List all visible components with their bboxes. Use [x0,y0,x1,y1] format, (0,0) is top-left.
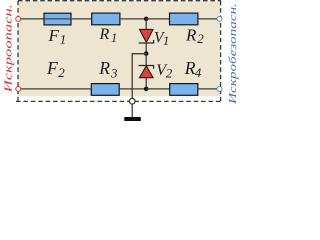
resistor R4 [170,84,198,96]
resistor R2 [170,13,198,25]
wire: node A down to zener V1 [145,19,147,30]
resistor R3 [91,84,119,96]
wire: R4 to right-bottom terminal [198,88,217,90]
wire: V1 cathode to node B [145,43,147,54]
wire: R3 to node C [119,88,146,90]
label F1 [48,26,67,46]
wire: left-bottom terminal to R3 (fuse F2 position) [21,88,92,90]
wire: ground terminal to earth symbol [131,104,133,117]
node C (bottom junction dot) [144,87,149,92]
svg-text:2: 2 [197,31,204,46]
label R1 [99,26,118,45]
wire: left-top terminal to fuse F1 [21,18,45,20]
zener diode V2 [139,66,154,78]
barrier enclosure fill [19,1,221,96]
label R3 [98,58,118,81]
ground (earth bar) [124,117,141,121]
fuse F1 body [44,13,71,25]
svg-text:F: F [48,26,60,45]
svg-text:1: 1 [60,32,67,47]
svg-text:1: 1 [111,31,117,45]
terminal: right bottom (intrinsically safe output) [217,86,222,91]
wire: F1 to R1 [71,18,92,20]
zener diode V1 [139,29,154,43]
ground pass-through terminal on border [129,98,135,104]
wire: node C to R4 [146,88,170,90]
svg-text:F: F [46,58,58,78]
wire: V2 anode to node C [145,78,147,89]
svg-text:1: 1 [163,34,169,48]
node B (midpoint junction dot) [144,51,149,56]
label V1 [154,29,169,48]
wire: node A to R2 [146,18,169,20]
svg-text:4: 4 [195,65,202,80]
svg-text:R: R [99,26,110,43]
svg-text:R: R [185,25,197,44]
wire: R2 to right-top terminal [198,18,217,20]
svg-text:2: 2 [166,65,173,80]
node A (top junction dot) [144,17,149,22]
label R2 [185,25,204,46]
terminal: left top (spark-hazard input) [16,16,21,21]
svg-text:Искроопасн.: Искроопасн. [4,4,15,94]
svg-text:Искробезопасн.: Искробезопасн. [228,3,239,105]
terminal: left bottom (spark-hazard input) [16,86,21,91]
wire: R1 to node A [120,18,146,20]
wire: node B to zener V2 [145,54,147,66]
barrier enclosure dashed border [16,1,222,102]
svg-text:2: 2 [58,65,65,80]
label R4 [184,58,202,80]
terminal: right top (intrinsically safe output) [217,16,222,21]
svg-text:3: 3 [110,66,118,81]
resistor R1 [92,13,120,25]
wire: node B to ground branch (L-shape) [132,54,146,98]
fuse F1 element line [44,18,71,20]
label V2 [156,62,173,80]
label F2 [46,58,65,80]
svg-text:R: R [98,58,110,78]
